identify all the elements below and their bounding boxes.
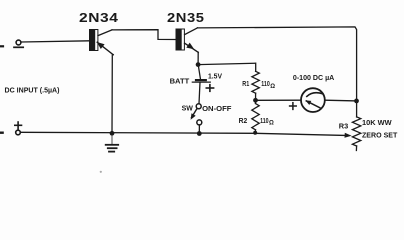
- svg-text:R1: R1: [242, 79, 250, 88]
- wire: 2N34 collector to 2N35 base (with jog): [112, 30, 176, 40]
- svg-text:R3: R3: [339, 122, 349, 131]
- wire: R2 bottom to rail: [254, 130, 256, 133]
- wire: bottom ground rail: [21, 132, 345, 135]
- svg-text:0-100 DC µA: 0-100 DC µA: [293, 73, 335, 82]
- wire: 2N34 emitter down to ground rail: [112, 55, 113, 134]
- plus sign meter: [290, 103, 297, 110]
- wire: switch to rail: [198, 125, 200, 133]
- value 110 ohm R2: [260, 116, 274, 127]
- resistor R1: [252, 71, 259, 93]
- R3 bottom stub: [355, 146, 357, 151]
- minus polarity mark: [14, 46, 23, 48]
- potentiometer R3: [352, 117, 360, 146]
- svg-text:10K WW: 10K WW: [362, 118, 392, 127]
- left edge mark bottom: [0, 131, 3, 133]
- wire: node to meter: [256, 99, 301, 101]
- battery B1 plates: [192, 80, 210, 82]
- wire: node to R1 top: [198, 63, 256, 71]
- svg-text:ZERO SET: ZERO SET: [362, 131, 398, 140]
- junction dot R1/R2 node: [253, 98, 258, 103]
- ground symbol: [106, 135, 119, 151]
- junction dot R2 bottom: [253, 131, 257, 135]
- meter M1 0-100 DC uA: [301, 88, 325, 112]
- svg-text:SW: SW: [182, 104, 194, 113]
- svg-text:1.5V: 1.5V: [208, 72, 223, 81]
- wire: R1 bottom to node: [255, 93, 257, 103]
- transistor Q1 2N34: [89, 29, 113, 55]
- svg-text:110: 110: [261, 79, 270, 88]
- junction dot emitter node: [196, 62, 201, 67]
- switch arm: [192, 109, 197, 118]
- svg-text:2N34: 2N34: [79, 10, 119, 25]
- left edge mark top: [0, 45, 3, 47]
- junction dot switch bottom: [197, 131, 202, 136]
- svg-text:Ω: Ω: [269, 121, 274, 127]
- value 110 ohm R1: [261, 79, 275, 90]
- svg-text:Ω: Ω: [270, 84, 275, 90]
- switch SW bottom contact: [197, 120, 202, 125]
- input terminal top-left: [16, 40, 21, 45]
- wire: battery to switch: [199, 82, 200, 103]
- wiper arrow into R3: [345, 133, 352, 138]
- junction dot meter right: [354, 99, 359, 104]
- svg-text:2N35: 2N35: [167, 10, 205, 25]
- wire: top rail 2N35 collector to right side: [198, 27, 357, 117]
- svg-text:ON-OFF: ON-OFF: [202, 104, 232, 113]
- wire: 2N35 emitter down to node: [197, 52, 199, 64]
- svg-text:110: 110: [260, 116, 269, 125]
- speck artifact: [100, 171, 102, 173]
- switch SW top contact: [196, 104, 201, 109]
- battery BATT wire from node: [198, 65, 200, 80]
- svg-text:R2: R2: [239, 116, 248, 125]
- junction dot emitter/ground: [110, 131, 115, 136]
- svg-text:DC INPUT (.5µA): DC INPUT (.5µA): [5, 85, 60, 94]
- plus sign input: [15, 122, 22, 129]
- plus sign battery: [206, 85, 213, 92]
- svg-text:BATT: BATT: [170, 77, 190, 86]
- resistor R2: [252, 104, 259, 130]
- wire: input to 2N34 base: [22, 41, 89, 42]
- wire: meter to right vertical: [325, 99, 356, 102]
- transistor Q2 2N35: [176, 28, 199, 52]
- bottom terminal: [16, 130, 21, 135]
